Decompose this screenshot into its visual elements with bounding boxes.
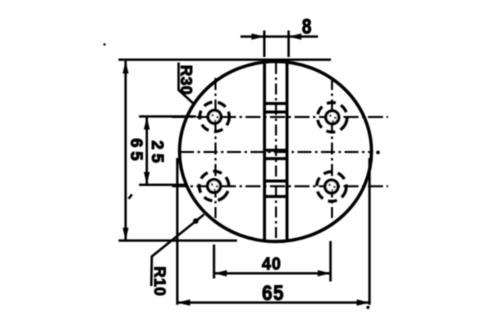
hole column center line left [215,78,217,218]
hole column center line right [331,78,333,218]
dim 65 left: arrow up [123,61,129,74]
R10 leader dot [193,218,199,224]
dim 40: dimension line [214,272,331,274]
dim 65 bottom: arrow left [177,299,190,305]
svg-text:65: 65 [127,138,145,164]
speck tick near 65 dim [129,194,132,198]
hole top-right [313,98,352,137]
hole bottom-right [314,169,349,204]
R30 leader line [179,63,195,105]
knuckle divider 2 [263,111,288,114]
dim 25: arrow down [144,172,150,185]
dim 65 left: top extension line [119,59,332,61]
dim 40: arrow left [214,270,227,276]
dim 65 bottom: right extension line [368,158,370,305]
svg-text:65: 65 [262,282,284,306]
dim 8: arrow right [289,33,302,39]
dim 25: bottom extension line [139,184,186,186]
speck bottom-right [366,306,369,309]
knuckle divider 1 [263,102,288,105]
hole bottom-left [193,165,235,207]
dim 8: arrow left [252,33,265,39]
dim 65 left: arrow down [123,228,129,241]
dim 8: extension line right [287,31,289,58]
knuckle divider 6 [263,195,288,198]
hinge pin center line [275,63,277,240]
svg-text:8: 8 [302,16,312,39]
horizontal center line of circle [180,151,372,153]
svg-text:R10: R10 [151,266,168,296]
knuckle divider 5 [263,180,288,183]
dim 65 bottom: arrow right [357,299,370,305]
dim 25: arrow up [144,117,150,130]
dim 25: top extension line [139,115,196,117]
dim 25: dimension line [146,117,148,185]
dim 65 left: bottom extension line [119,239,238,241]
knuckle divider 4 [263,157,288,160]
dim 65 left: dimension line [124,61,126,240]
hole top-left [200,102,230,132]
dim 40: left extension line [213,245,215,279]
hinge leaf outline circle Ø65 [180,62,372,242]
svg-text:40: 40 [262,254,282,274]
hole row center line bottom [172,185,388,187]
R10 leader line [151,215,204,287]
dim 65 bottom: left extension line [176,158,178,305]
svg-text:25: 25 [148,140,166,166]
dim 8: dimension line [241,35,319,37]
speck top-left [103,43,105,45]
knuckle divider 3 [263,149,288,152]
center line end dot right [376,151,380,155]
dim 8: extension line left [263,31,265,58]
dim 40: right extension line [329,241,331,282]
svg-text:R30: R30 [177,65,194,95]
hole row center line top [172,116,388,118]
knuckle strip left edge [263,62,266,241]
knuckle strip right edge [286,62,289,241]
dim 40: arrow right [318,270,331,276]
dim 65 bottom: dimension line [177,301,369,303]
